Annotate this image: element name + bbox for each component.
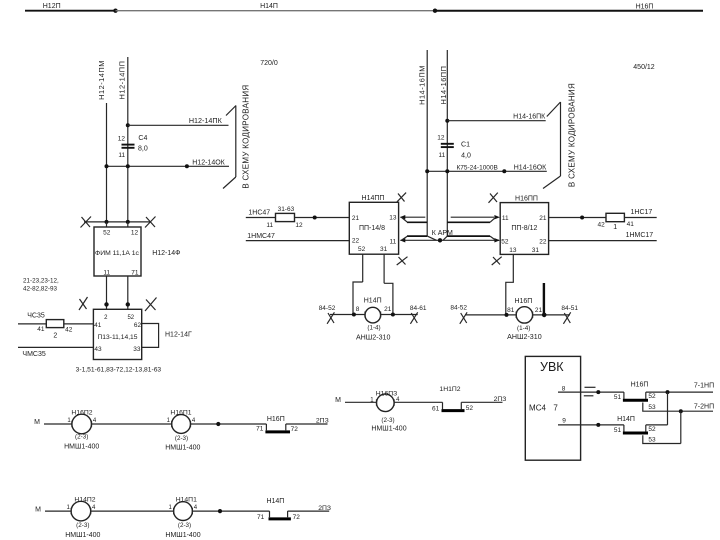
svg-text:1НС17: 1НС17 <box>631 209 653 216</box>
relay coil Н16П1 <box>172 415 191 434</box>
svg-text:Н12-14ПП: Н12-14ПП <box>118 61 127 100</box>
svg-text:Н12-14Г: Н12-14Г <box>165 332 192 339</box>
svg-text:Н12П: Н12П <box>43 3 61 10</box>
wire row C seg4 <box>288 510 330 512</box>
svg-text:12: 12 <box>118 136 126 143</box>
terminal tick right <box>393 399 395 406</box>
break mark left of block top wire <box>81 217 92 228</box>
svg-text:9: 9 <box>562 417 566 424</box>
svg-text:52: 52 <box>648 393 656 400</box>
node ОК tap on ПП line <box>126 164 130 168</box>
wire 1НС47 left part <box>246 217 276 219</box>
relay coil Н14П <box>365 307 381 323</box>
relay coil Н16ПЗ <box>377 394 395 412</box>
svg-text:Н14П: Н14П <box>617 416 635 423</box>
svg-text:11: 11 <box>390 238 397 245</box>
svg-text:52: 52 <box>466 405 474 412</box>
terminal tick left <box>515 312 517 319</box>
break mark right of block top wire <box>145 217 156 228</box>
wire relay row left <box>330 314 365 316</box>
wire 1НМС17 <box>549 240 657 242</box>
node dot above box2 right <box>126 302 130 306</box>
wire Н14-16ОК <box>427 170 547 172</box>
svg-text:Н16П2: Н16П2 <box>71 409 92 416</box>
arrowhead into pin52 of ПП-8/12 <box>494 238 500 242</box>
wire ФИМ pin11 down <box>106 276 108 309</box>
svg-text:21: 21 <box>384 306 392 313</box>
block ФИМ box <box>94 227 141 276</box>
node dot on 7-1НП <box>666 390 670 394</box>
svg-text:31-63: 31-63 <box>278 206 295 213</box>
wire row A right <box>461 401 502 403</box>
svg-text:21: 21 <box>539 215 547 222</box>
svg-text:Н16ПП: Н16ПП <box>515 195 538 202</box>
wire к АРМ top thick left <box>407 221 427 223</box>
contact Н14П 51-52 <box>623 425 625 432</box>
svg-text:АНШ2-310: АНШ2-310 <box>356 334 391 342</box>
node dot row B <box>216 422 220 426</box>
svg-text:84-52: 84-52 <box>450 304 467 311</box>
svg-text:М: М <box>34 419 40 426</box>
svg-text:М: М <box>335 397 341 404</box>
svg-text:51: 51 <box>614 427 622 434</box>
svg-text:720/0: 720/0 <box>260 60 278 67</box>
svg-text:ФИМ 11,1А 1с: ФИМ 11,1А 1с <box>95 250 140 257</box>
arrowhead into pin11 of ПП-8/12 <box>494 215 500 219</box>
node junction on ОК wire <box>502 169 506 173</box>
node dot on 7-2НП <box>679 409 683 413</box>
wire row B seg1 <box>44 423 72 425</box>
wire from pin 8 <box>558 391 624 393</box>
svg-text:1Н1П2: 1Н1П2 <box>439 386 460 393</box>
svg-text:1НС47: 1НС47 <box>248 209 270 216</box>
svg-text:53: 53 <box>648 404 656 411</box>
wire Н12-14ПП vertical <box>127 57 129 222</box>
wire 1НС47 right part <box>295 217 350 219</box>
capacitor С1 plates <box>441 143 454 145</box>
contact Н16П 51-52 <box>623 392 625 399</box>
node ОК tap on ПМ line <box>105 164 109 168</box>
svg-text:Н16П: Н16П <box>636 4 654 11</box>
svg-text:3-1,51-61,83-72,12-13,81-63: 3-1,51-61,83-72,12-13,81-63 <box>76 367 162 374</box>
svg-text:(1-4): (1-4) <box>367 325 380 332</box>
svg-text:Н14-16ОК: Н14-16ОК <box>514 164 547 171</box>
bend bottom left <box>402 236 408 240</box>
node junction on 21 wire <box>313 216 317 220</box>
svg-text:Н14П: Н14П <box>260 3 278 10</box>
svg-text:Н14П1: Н14П1 <box>176 496 197 503</box>
wire ЧС35 <box>18 323 46 325</box>
wire bracket 62-33 right <box>142 324 159 348</box>
break mark left of box2 top <box>79 297 88 310</box>
callout bracket to coding scheme (left) <box>226 106 236 116</box>
svg-text:11: 11 <box>266 222 273 229</box>
wire pin31 drop <box>383 254 385 283</box>
bend top left <box>402 217 408 222</box>
svg-text:13: 13 <box>389 215 397 222</box>
wire Н12П bus left segment <box>25 10 116 12</box>
svg-text:52: 52 <box>127 315 134 321</box>
wire ФИМ pin71 down <box>127 276 129 309</box>
svg-text:53: 53 <box>648 437 656 444</box>
node dot on bottom АРМ wire <box>438 238 442 242</box>
svg-text:1НМС17: 1НМС17 <box>626 232 654 239</box>
svg-text:450/12: 450/12 <box>633 64 655 71</box>
block ПП-14/8 <box>349 202 398 254</box>
wire row B seg2 <box>92 423 172 425</box>
bend bottom right <box>490 236 496 240</box>
svg-text:ЧМС35: ЧМС35 <box>22 351 45 358</box>
wire Н14-16ПМ vertical <box>426 50 428 236</box>
svg-text:11: 11 <box>103 269 110 276</box>
wire ЧМС35 <box>18 346 93 348</box>
node ОК tap on ПМ <box>425 169 429 173</box>
wire row A middle <box>394 401 442 403</box>
arrowhead into pin13 <box>400 215 406 219</box>
wire 1НМС47 <box>246 240 349 242</box>
wire stub ПП into box top <box>127 222 129 227</box>
wire pin13 drop <box>506 254 514 315</box>
contact Н16П 71-72 <box>265 424 267 430</box>
wire row C seg3 <box>192 510 269 512</box>
svg-text:НМШ1-400: НМШ1-400 <box>64 443 99 450</box>
svg-text:Н12-14ПК: Н12-14ПК <box>189 116 223 125</box>
svg-text:41: 41 <box>94 322 102 329</box>
break mark left 84-52r <box>460 312 467 324</box>
svg-text:84-52: 84-52 <box>319 305 336 312</box>
svg-text:2ПЗ: 2ПЗ <box>318 505 331 512</box>
svg-text:2ПЗ: 2ПЗ <box>316 417 329 424</box>
node junction on right 21 wire <box>580 216 584 220</box>
svg-text:42: 42 <box>65 327 73 334</box>
break mark left 84-52 <box>327 312 334 324</box>
bend ПП line into bottom wire <box>443 236 447 240</box>
node dot left <box>352 313 356 317</box>
svg-text:Н12-14Ф: Н12-14Ф <box>152 250 180 257</box>
wire к АРМ top thin left <box>401 216 426 218</box>
svg-text:31: 31 <box>380 246 388 253</box>
svg-text:52: 52 <box>103 229 111 236</box>
wire stub thick from pin31 <box>543 283 545 315</box>
svg-text:41: 41 <box>627 221 635 228</box>
wire к АРМ bottom thick right <box>447 235 490 237</box>
svg-text:С4: С4 <box>138 135 147 142</box>
svg-text:Н16ПЗ: Н16ПЗ <box>376 390 397 397</box>
svg-text:Н16П: Н16П <box>514 298 532 305</box>
svg-text:М: М <box>35 507 41 514</box>
node dot above box2 left <box>104 302 108 306</box>
svg-text:НМШ1-400: НМШ1-400 <box>371 426 406 433</box>
svg-text:МС4: МС4 <box>529 404 546 413</box>
wire relay row right <box>381 314 418 316</box>
svg-text:84-61: 84-61 <box>410 305 427 312</box>
wire row C seg1 <box>45 510 71 512</box>
svg-text:(2-3): (2-3) <box>178 522 191 529</box>
node dot right <box>542 313 547 318</box>
connector marks <box>585 386 596 388</box>
svg-text:52: 52 <box>501 239 509 246</box>
svg-text:11: 11 <box>439 152 446 159</box>
resistor 31-63 <box>276 213 295 221</box>
fork mark bottom left <box>397 257 408 265</box>
callout bracket to coding scheme (right) <box>547 102 561 117</box>
svg-text:НМШ1-400: НМШ1-400 <box>165 532 200 539</box>
svg-text:62: 62 <box>134 322 142 329</box>
node dot left <box>505 313 509 317</box>
node dot pin8 wire <box>596 390 600 394</box>
svg-text:71: 71 <box>131 269 139 276</box>
svg-text:4,0: 4,0 <box>461 153 471 160</box>
svg-text:2ПЗ: 2ПЗ <box>494 396 507 403</box>
svg-text:61: 61 <box>432 406 440 413</box>
ticks Н14П1 <box>173 508 175 514</box>
svg-text:К75-24-1000В: К75-24-1000В <box>457 164 498 171</box>
svg-text:43: 43 <box>94 346 102 353</box>
bend ПМ line into bottom wire <box>427 236 436 240</box>
svg-text:22: 22 <box>352 238 360 245</box>
wire row B seg4 <box>286 423 328 425</box>
node ОК tap on ПП <box>445 169 449 173</box>
svg-text:72: 72 <box>291 426 299 433</box>
capacitor C4 plates <box>122 144 135 146</box>
svg-text:72: 72 <box>293 514 301 521</box>
wire к АРМ top thick right <box>447 221 490 223</box>
break mark right of box2 top <box>145 298 157 312</box>
node junction dot right <box>433 9 437 13</box>
contact 1Н1П2 61-52 <box>442 402 444 409</box>
svg-text:41: 41 <box>37 326 45 333</box>
svg-text:(2-3): (2-3) <box>75 433 88 440</box>
wire from pin 9 <box>558 424 624 426</box>
svg-text:8: 8 <box>356 306 360 313</box>
fork mark bottom right <box>492 257 502 265</box>
wire row C seg2 <box>91 510 174 512</box>
svg-text:7-2НП: 7-2НП <box>694 404 714 411</box>
relay coil Н14П1 <box>174 502 193 521</box>
wire 52 out to join <box>646 424 668 426</box>
wire Н12-14ПК <box>128 124 229 126</box>
svg-text:НМШ1-400: НМШ1-400 <box>65 532 100 539</box>
svg-text:В СХЕМУ КОДИРОВАНИЯ: В СХЕМУ КОДИРОВАНИЯ <box>568 83 577 187</box>
wire к АРМ top thin right <box>451 216 494 218</box>
terminal tick right <box>380 312 382 318</box>
block П13 box <box>93 309 141 359</box>
svg-text:НМШ1-400: НМШ1-400 <box>165 445 200 452</box>
wire Н14-16ПП vertical <box>446 50 448 236</box>
svg-text:21-23,23-12,: 21-23,23-12, <box>23 278 59 285</box>
wire Н12-14ПМ vertical <box>106 103 108 222</box>
relay coil Н16П2 <box>72 414 92 434</box>
node dot ПП on block top wire <box>126 220 130 224</box>
svg-text:Н16П1: Н16П1 <box>170 409 191 416</box>
svg-text:8: 8 <box>562 385 566 392</box>
svg-text:8,0: 8,0 <box>138 146 148 153</box>
svg-text:Н16П: Н16П <box>631 381 649 388</box>
svg-text:Н14П: Н14П <box>266 498 284 505</box>
block ПП-8/12 <box>500 203 548 255</box>
svg-text:11: 11 <box>118 152 125 159</box>
svg-text:П13-11,14,15: П13-11,14,15 <box>97 334 137 341</box>
svg-text:Н12-14ПМ: Н12-14ПМ <box>97 60 106 100</box>
svg-text:Н14П2: Н14П2 <box>74 496 95 503</box>
wire 53 back contact to 7-2НП <box>643 403 713 412</box>
svg-text:22: 22 <box>539 239 547 246</box>
svg-text:ПП-8/12: ПП-8/12 <box>511 225 537 232</box>
svg-text:71: 71 <box>257 514 265 521</box>
svg-text:(2-3): (2-3) <box>381 417 394 424</box>
svg-text:Н14-16ПК: Н14-16ПК <box>513 113 546 120</box>
svg-text:52: 52 <box>648 426 656 433</box>
fork mark top right <box>489 193 498 203</box>
break mark right 84-61 <box>410 312 417 324</box>
terminal tick right <box>532 312 534 319</box>
svg-text:42: 42 <box>597 221 605 228</box>
resistor 1 <box>606 213 624 221</box>
svg-text:1НМС47: 1НМС47 <box>247 233 275 240</box>
svg-text:21: 21 <box>535 307 543 314</box>
svg-text:Н14-16ПМ: Н14-16ПМ <box>418 65 427 105</box>
svg-text:2: 2 <box>53 333 57 340</box>
wire 21 right part1 <box>549 217 606 219</box>
svg-text:33: 33 <box>133 346 141 353</box>
svg-text:Н14П: Н14П <box>364 298 382 305</box>
svg-text:7-1НП: 7-1НП <box>694 382 714 389</box>
node dot right <box>391 313 395 317</box>
wire Н14-16ПК <box>447 120 545 122</box>
svg-text:ПП-14/8: ПП-14/8 <box>359 225 385 232</box>
relay coil Н16П <box>516 307 532 323</box>
ticks Н14П2 <box>70 508 72 514</box>
node dot row C <box>218 509 222 513</box>
svg-text:7: 7 <box>553 404 558 413</box>
block УВК box <box>525 356 580 460</box>
wire relay row right <box>533 314 570 316</box>
wire Н12-14ОК <box>107 165 230 167</box>
svg-text:Н16П: Н16П <box>267 416 285 423</box>
node dot ПМ on block top wire <box>105 220 109 224</box>
resistor 2 <box>46 320 64 328</box>
wire stub ПМ into box top <box>106 222 108 227</box>
svg-text:12: 12 <box>437 135 445 142</box>
svg-text:(1-4): (1-4) <box>517 325 530 332</box>
wire jog left <box>353 282 363 315</box>
svg-text:(2-3): (2-3) <box>76 522 89 529</box>
svg-text:81: 81 <box>507 307 515 314</box>
svg-text:УВК: УВК <box>540 360 564 374</box>
svg-text:АНШ2-310: АНШ2-310 <box>507 333 542 341</box>
svg-text:С1: С1 <box>461 142 470 149</box>
wire relay row left <box>465 314 516 316</box>
wire top of block ФИМ <box>84 221 150 223</box>
svg-text:(2-3): (2-3) <box>175 435 188 442</box>
svg-text:13: 13 <box>509 247 517 254</box>
svg-text:21: 21 <box>352 215 360 222</box>
node tap ПК on ПП line <box>445 119 449 123</box>
svg-text:84-51: 84-51 <box>561 305 578 312</box>
node junction on ОК wire <box>185 164 189 168</box>
ticks Н16П2 <box>71 421 73 427</box>
node tap of ПК wire on ПП line <box>126 123 130 127</box>
svg-text:52: 52 <box>358 246 366 253</box>
wire 53 lower back contact <box>643 435 681 443</box>
svg-text:Н14-16ПП: Н14-16ПП <box>439 66 448 105</box>
svg-text:В СХЕМУ КОДИРОВАНИЯ: В СХЕМУ КОДИРОВАНИЯ <box>242 85 251 189</box>
wire 21 right part2 <box>624 217 656 219</box>
svg-text:71: 71 <box>256 426 264 433</box>
svg-text:31: 31 <box>532 247 540 254</box>
svg-text:Н14ПП: Н14ПП <box>362 195 385 202</box>
relay coil Н14П2 <box>71 501 91 521</box>
svg-text:42-82,82-93: 42-82,82-93 <box>23 286 57 293</box>
wire 7-1НП <box>646 391 713 393</box>
svg-text:Н12-14ОК: Н12-14ОК <box>192 159 225 166</box>
terminal tick left <box>376 399 378 406</box>
wire Н14П bus middle segment <box>116 10 436 12</box>
wire к АРМ bottom thick left <box>407 235 427 237</box>
ticks Н16П1 <box>171 421 173 427</box>
svg-text:12: 12 <box>131 229 139 236</box>
svg-text:1: 1 <box>613 224 617 231</box>
contact Н14П 71-72 <box>269 511 271 517</box>
break mark right 84-51 <box>563 312 570 324</box>
fork mark top left <box>397 193 406 202</box>
wire Н16П bus right segment <box>435 10 703 12</box>
node junction dot left <box>113 9 117 13</box>
wire vertical 53 join <box>680 411 682 443</box>
wire к АРМ bottom thin <box>401 239 500 241</box>
bend top right <box>490 217 496 222</box>
node dot pin9 wire <box>596 423 600 427</box>
wire jog right <box>384 283 393 314</box>
wire vertical 52 join <box>667 392 669 425</box>
terminal tick left <box>364 312 366 318</box>
svg-text:12: 12 <box>295 222 303 229</box>
wire row B seg3 <box>191 423 267 425</box>
svg-text:51: 51 <box>614 394 622 401</box>
svg-text:ЧС35: ЧС35 <box>27 313 45 320</box>
svg-text:11: 11 <box>502 215 509 222</box>
arrowhead into pin11 of ПП-14/8 <box>400 238 406 242</box>
wire pin52 drop <box>362 254 364 282</box>
wire row A left <box>345 401 377 403</box>
